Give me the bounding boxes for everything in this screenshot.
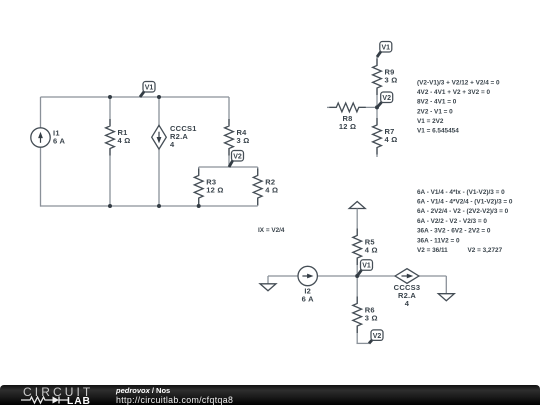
svg-text:3 Ω: 3 Ω bbox=[385, 76, 398, 85]
svg-text:V1: V1 bbox=[145, 84, 154, 91]
wire R4 branch bottom bbox=[228, 149, 230, 168]
wire R9 top lead bbox=[376, 57, 378, 66]
junction R1 bottom bbox=[108, 204, 112, 208]
wire CCCS1 bottom bbox=[158, 149, 160, 206]
controlled source CCCS3 bbox=[394, 269, 421, 309]
wire R3 branch bottom bbox=[198, 198, 200, 206]
annotation equations block 2 bbox=[417, 189, 513, 254]
wire left upper bbox=[40, 97, 42, 128]
junction R1 top bbox=[108, 95, 112, 99]
svg-text:6A - V1/4 - 4*Ix - (V1-V2)/3 =: 6A - V1/4 - 4*Ix - (V1-V2)/3 = 0 bbox=[417, 189, 505, 196]
svg-text:6 A: 6 A bbox=[302, 295, 314, 304]
svg-text:(V2-V1)/3 + V2/12 + V2/4 = 0: (V2-V1)/3 + V2/12 + V2/4 = 0 bbox=[417, 79, 500, 86]
wire R1 branch top bbox=[109, 97, 111, 126]
junction circuit2 node V2 bbox=[375, 105, 379, 109]
wire top net V1 bbox=[41, 96, 230, 98]
wire left stub down bbox=[267, 276, 269, 284]
wire R5-node bbox=[356, 258, 358, 276]
svg-text:V2: V2 bbox=[373, 333, 382, 340]
wire left lower bbox=[40, 147, 42, 207]
wire node-CCCS3 bbox=[357, 275, 395, 277]
wire R5 top bbox=[356, 209, 358, 236]
resistor R3 bbox=[194, 169, 223, 206]
svg-text:8V2 - 4V1 = 0: 8V2 - 4V1 = 0 bbox=[417, 99, 457, 106]
svg-text:V1: V1 bbox=[382, 44, 391, 51]
wire node-R6 bbox=[356, 276, 358, 304]
svg-text:V2 = 36/11: V2 = 36/11 bbox=[417, 247, 448, 254]
wire node-R7 bbox=[376, 107, 378, 125]
node flag V1 bbox=[377, 42, 392, 58]
svg-text:4 Ω: 4 Ω bbox=[385, 135, 398, 144]
wire R1 branch bottom bbox=[109, 149, 111, 207]
svg-text:6A - 2V2/4 - V2 - (2V2-V2)/3 =: 6A - 2V2/4 - V2 - (2V2-V2)/3 = 0 bbox=[417, 208, 509, 215]
svg-text:36A - 11V2 = 0: 36A - 11V2 = 0 bbox=[417, 237, 460, 244]
svg-text:V2: V2 bbox=[382, 95, 391, 102]
svg-text:4: 4 bbox=[170, 140, 175, 149]
resistor R9 bbox=[373, 59, 398, 96]
net symbol down-triangle right bbox=[438, 294, 454, 301]
node flag V2 bbox=[369, 330, 383, 344]
svg-text:4: 4 bbox=[405, 299, 410, 308]
controlled source CCCS1 bbox=[152, 124, 197, 149]
wire R9-node bbox=[376, 89, 378, 108]
svg-text:4 Ω: 4 Ω bbox=[365, 246, 378, 255]
resistor R8 bbox=[329, 103, 366, 131]
svg-text:12 Ω: 12 Ω bbox=[206, 186, 223, 195]
wire bottom net bbox=[40, 205, 258, 207]
node flag V1 bbox=[140, 82, 155, 98]
wire to V2 flag bbox=[357, 342, 370, 344]
svg-text:V1 = 2V2: V1 = 2V2 bbox=[417, 118, 444, 125]
net symbol down-triangle left bbox=[260, 284, 276, 291]
wire R3 branch top bbox=[198, 167, 200, 176]
resistor R4 bbox=[225, 119, 250, 156]
wire R8 right bbox=[359, 106, 377, 108]
svg-text:6A - V1/4 - 4*V2/4 - (V1-V2)/3: 6A - V1/4 - 4*V2/4 - (V1-V2)/3 = 0 bbox=[417, 199, 513, 206]
svg-text:6 A: 6 A bbox=[53, 137, 65, 146]
svg-text:4V2 - 4V1 + V2 + 3V2 = 0: 4V2 - 4V1 + V2 + 3V2 = 0 bbox=[417, 89, 490, 96]
junction R3 bottom bbox=[197, 204, 201, 208]
svg-text:2V2 - V1 = 0: 2V2 - V1 = 0 bbox=[417, 108, 453, 115]
resistor R5 bbox=[353, 229, 378, 266]
annotation equations block 1 bbox=[417, 79, 500, 134]
svg-text:36A - 3V2 - 6V2 - 2V2 = 0: 36A - 3V2 - 6V2 - 2V2 = 0 bbox=[417, 228, 491, 235]
svg-text:V1 = 6.545454: V1 = 6.545454 bbox=[417, 128, 459, 135]
svg-text:3 Ω: 3 Ω bbox=[237, 136, 250, 145]
svg-text:4 Ω: 4 Ω bbox=[118, 136, 131, 145]
wire left to I2 bbox=[268, 275, 298, 277]
svg-text:12 Ω: 12 Ω bbox=[339, 122, 356, 131]
resistor R7 bbox=[373, 118, 398, 155]
net symbol up-triangle bbox=[349, 202, 365, 209]
wire R4 branch top bbox=[228, 97, 230, 126]
junction CCCS1 bottom bbox=[157, 204, 161, 208]
node flag V2 bbox=[229, 151, 244, 168]
resistor R1 bbox=[106, 119, 131, 156]
wire I2-node bbox=[318, 275, 358, 277]
footer bar bbox=[0, 385, 540, 405]
wire right stub down bbox=[445, 276, 447, 294]
resistor R6 bbox=[353, 297, 378, 334]
node flag V1 bbox=[357, 260, 372, 276]
wire net V2 bbox=[199, 166, 258, 168]
current source I2 bbox=[298, 266, 317, 303]
wire R7 bottom lead bbox=[376, 148, 378, 158]
svg-text:V1: V1 bbox=[362, 263, 371, 270]
wire R2 branch top bbox=[257, 167, 259, 176]
junction circuit3 node V1 bbox=[355, 274, 359, 278]
junction CCCS1 top bbox=[157, 95, 161, 99]
wire CCCS3-right bbox=[419, 275, 446, 277]
wire CCCS1 top bbox=[158, 97, 160, 126]
CircuitLab logo text bbox=[23, 385, 93, 399]
svg-text:3 Ω: 3 Ω bbox=[365, 314, 378, 323]
wire R6 bottom bbox=[356, 326, 358, 344]
svg-text:IX = V2/4: IX = V2/4 bbox=[258, 227, 285, 234]
wire R2 branch bottom bbox=[257, 198, 259, 206]
svg-text:V2 = 3,2727: V2 = 3,2727 bbox=[468, 247, 503, 254]
wire R8 left bbox=[327, 106, 336, 108]
svg-text:V2: V2 bbox=[233, 153, 242, 160]
svg-text:4 Ω: 4 Ω bbox=[265, 186, 278, 195]
current source I1 bbox=[31, 128, 66, 147]
CircuitLab logo glyph: wire-resistor-diode bbox=[20, 395, 70, 405]
svg-text:6A - V2/2 - V2 - V2/3 = 0: 6A - V2/2 - V2 - V2/3 = 0 bbox=[417, 218, 487, 225]
node flag V2 bbox=[377, 92, 393, 107]
resistor R2 bbox=[253, 169, 278, 206]
